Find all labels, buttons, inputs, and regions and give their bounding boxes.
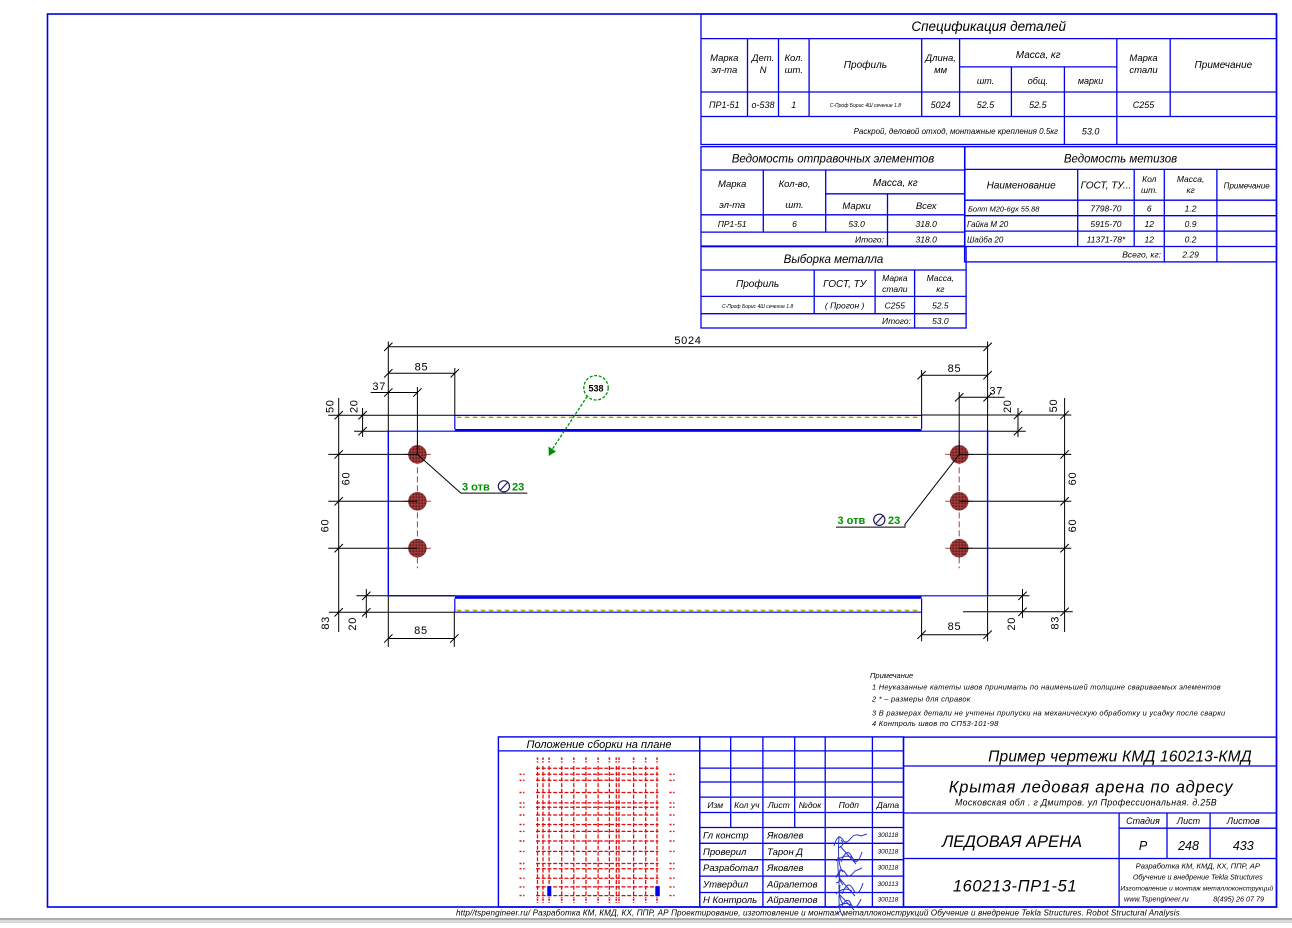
svg-text:Разработка КМ, КМД, КХ, ППР, А: Разработка КМ, КМД, КХ, ППР, АР xyxy=(1136,862,1261,871)
dim 85 bottom right xyxy=(922,634,988,636)
svg-text:85: 85 xyxy=(415,362,429,374)
svg-text:0.2: 0.2 xyxy=(1185,235,1197,245)
svg-text:53.0: 53.0 xyxy=(1082,127,1100,137)
extension lines right xyxy=(922,414,1072,416)
svg-text:Положение сборки на плане: Положение сборки на плане xyxy=(526,739,671,751)
svg-text:Профиль: Профиль xyxy=(844,59,887,71)
svg-text:Масса,: Масса, xyxy=(927,273,955,283)
svg-text:300113: 300113 xyxy=(878,881,899,888)
svg-text:Ведомость метизов: Ведомость метизов xyxy=(1064,154,1177,166)
svg-text:300118: 300118 xyxy=(878,832,899,839)
svg-text:Лист: Лист xyxy=(1176,816,1201,826)
svg-text:52.5: 52.5 xyxy=(977,100,996,110)
svg-text:Итого:: Итого: xyxy=(882,316,912,326)
svg-text:( Прогон ): ( Прогон ) xyxy=(825,301,865,311)
svg-text:318.0: 318.0 xyxy=(916,219,938,229)
bottom flange weld dashed line xyxy=(457,610,920,612)
svg-text:Всего, кг:: Всего, кг: xyxy=(1122,250,1161,260)
svg-text:5915-70: 5915-70 xyxy=(1090,219,1121,229)
svg-text:Листов: Листов xyxy=(1226,816,1260,826)
svg-text:83: 83 xyxy=(320,616,332,630)
svg-text:Длина,: Длина, xyxy=(924,53,955,64)
svg-text:Спецификация деталей: Спецификация деталей xyxy=(911,19,1066,34)
highlighted purlins (blue) xyxy=(547,886,551,896)
svg-text:20: 20 xyxy=(347,617,359,631)
svg-text:538: 538 xyxy=(588,384,603,394)
svg-text:Дет.: Дет. xyxy=(751,53,774,64)
svg-text:www.Tspengineer.ru: www.Tspengineer.ru xyxy=(1124,895,1189,904)
svg-text:60: 60 xyxy=(320,519,332,533)
svg-text:Примечание: Примечание xyxy=(1224,182,1271,191)
box Положение сборки на плане xyxy=(498,737,699,907)
svg-text:Итого:: Итого: xyxy=(855,235,885,245)
svg-text:С255: С255 xyxy=(885,301,906,311)
svg-text:0.9: 0.9 xyxy=(1185,219,1197,229)
svg-text:С255: С255 xyxy=(1133,100,1156,110)
svg-text:11371-78*: 11371-78* xyxy=(1087,235,1126,245)
leader 3 отв ø23 left xyxy=(417,454,527,493)
svg-text:Примечание: Примечание xyxy=(1195,60,1253,71)
svg-text:http//tspengineer.ru/ Разраб: http//tspengineer.ru/ Разработка КМ, КМД… xyxy=(456,909,1180,918)
svg-text:60: 60 xyxy=(1067,472,1079,486)
top flange xyxy=(455,414,922,416)
svg-text:Выборка металла: Выборка металла xyxy=(784,254,884,266)
bolt holes 3 отв ø23 (left group) xyxy=(408,445,427,464)
svg-text:Р: Р xyxy=(1139,839,1148,853)
svg-text:ПР1-51: ПР1-51 xyxy=(709,100,740,110)
svg-text:2 * – размеры для справок: 2 * – размеры для справок xyxy=(871,694,971,703)
signatures (blue scribbles) xyxy=(834,834,867,916)
svg-text:5024: 5024 xyxy=(931,100,951,110)
svg-text:3 отв: 3 отв xyxy=(462,482,490,494)
svg-text:шт.: шт. xyxy=(1141,185,1157,195)
svg-text:Айрапетов: Айрапетов xyxy=(766,880,818,891)
svg-text:60: 60 xyxy=(341,472,353,486)
svg-text:60: 60 xyxy=(1067,519,1079,533)
svg-text:300118: 300118 xyxy=(878,897,899,904)
svg-text:23: 23 xyxy=(888,515,900,527)
svg-text:С-Проф Борис 4Ш сечение 1.8: С-Проф Борис 4Ш сечение 1.8 xyxy=(830,103,902,109)
svg-text:433: 433 xyxy=(1233,839,1254,853)
dim chain right 50/60/60/83 xyxy=(1064,398,1066,632)
svg-text:85: 85 xyxy=(414,625,428,637)
dim 85 top left xyxy=(388,372,455,374)
svg-text:23: 23 xyxy=(512,482,524,494)
svg-text:Марка: Марка xyxy=(710,53,738,64)
svg-text:Яковлев: Яковлев xyxy=(766,863,804,874)
svg-text:Масса, кг: Масса, кг xyxy=(873,178,918,189)
svg-text:о-538: о-538 xyxy=(751,100,774,110)
red plan grid xyxy=(537,766,539,898)
svg-text:Утвердил: Утвердил xyxy=(702,880,749,891)
svg-text:Раскрой, деловой отход, монтаж: Раскрой, деловой отход, монтажные крепле… xyxy=(854,127,1058,136)
svg-text:20: 20 xyxy=(1002,399,1014,413)
svg-text:Проверил: Проверил xyxy=(703,847,747,858)
bottom flange xyxy=(455,611,922,613)
svg-text:С-Проф Борис 4Ш сечение 1.8: С-Проф Борис 4Ш сечение 1.8 xyxy=(722,304,794,310)
dim 37 top right xyxy=(959,396,1004,398)
top flange weld dashed line xyxy=(457,416,920,418)
dim 20 top right xyxy=(1017,408,1019,437)
svg-text:Н Контроль: Н Контроль xyxy=(703,895,757,906)
extension lines left xyxy=(328,414,455,416)
svg-text:12: 12 xyxy=(1145,235,1155,245)
svg-text:Болт М20-6gх 55.88: Болт М20-6gх 55.88 xyxy=(968,205,1040,214)
svg-text:4 Контроль швов по СП53-101-9: 4 Контроль швов по СП53-101-98 xyxy=(872,719,999,728)
svg-text:Ведомость отправочных элементо: Ведомость отправочных элементов xyxy=(732,154,935,166)
svg-text:кг: кг xyxy=(1186,185,1194,195)
svg-text:53.0: 53.0 xyxy=(848,219,865,229)
svg-text:Масса,: Масса, xyxy=(1177,174,1205,184)
svg-text:Профиль: Профиль xyxy=(736,278,779,290)
svg-text:50: 50 xyxy=(1048,399,1060,413)
svg-text:Всех: Всех xyxy=(916,201,938,212)
table: Спецификация деталей xyxy=(701,14,1277,145)
hole centerlines (red) xyxy=(403,453,431,455)
svg-text:Гайка М 20: Гайка М 20 xyxy=(967,220,1009,229)
svg-text:318.0: 318.0 xyxy=(916,235,938,245)
svg-text:Кол.: Кол. xyxy=(784,53,803,64)
svg-text:шт.: шт. xyxy=(785,200,803,211)
svg-text:85: 85 xyxy=(948,363,962,375)
dim 20 bottom right xyxy=(1022,589,1024,618)
svg-text:ГОСТ, ТУ: ГОСТ, ТУ xyxy=(823,279,868,290)
svg-text:Примечание: Примечание xyxy=(870,671,913,680)
title block xyxy=(904,737,1277,907)
svg-text:Крытая ледовая арена по адресу: Крытая ледовая арена по адресу xyxy=(949,779,1235,797)
svg-text:3 отв: 3 отв xyxy=(838,515,866,527)
svg-text:Дата: Дата xyxy=(876,800,900,810)
svg-text:Яковлев: Яковлев xyxy=(766,831,804,842)
svg-text:6: 6 xyxy=(1147,204,1152,214)
svg-text:общ.: общ. xyxy=(1028,76,1048,86)
svg-text:Гл констр: Гл констр xyxy=(703,831,749,842)
balloon 538 xyxy=(584,376,608,400)
svg-text:2.29: 2.29 xyxy=(1181,250,1199,260)
svg-text:52.5: 52.5 xyxy=(1029,100,1048,110)
svg-text:стали: стали xyxy=(1129,65,1158,76)
svg-text:Шайба 20: Шайба 20 xyxy=(967,236,1004,245)
table: Ведомость отправочных элементов xyxy=(701,147,965,246)
svg-text:Обучение и внедрение Tekla St: Обучение и внедрение Tekla Structures xyxy=(1133,873,1263,882)
dim 37 top left xyxy=(371,392,418,394)
svg-text:Масса, кг: Масса, кг xyxy=(1016,50,1061,61)
svg-text:Стадия: Стадия xyxy=(1126,816,1160,826)
svg-text:1 Неуказанные катеты швов при: 1 Неуказанные катеты швов принимать по н… xyxy=(872,683,1221,692)
table: Ведомость метизов xyxy=(965,147,1277,262)
svg-text:3 В размерах детали не учтены: 3 В размерах детали не учтены припуски н… xyxy=(872,708,1226,717)
svg-text:Марка: Марка xyxy=(718,179,746,190)
svg-text:Марки: Марки xyxy=(842,201,871,212)
dim 85 top right xyxy=(922,374,988,376)
svg-text:52.5: 52.5 xyxy=(932,301,949,311)
svg-text:Тарон Д: Тарон Д xyxy=(767,847,803,858)
svg-text:кг: кг xyxy=(936,284,944,294)
svg-text:7798-70: 7798-70 xyxy=(1090,204,1121,214)
svg-text:Кол: Кол xyxy=(1142,174,1157,184)
svg-text:шт.: шт. xyxy=(977,76,994,86)
svg-text:300118: 300118 xyxy=(878,865,899,872)
svg-text:Кол-во,: Кол-во, xyxy=(779,179,811,190)
dim 20 bottom left xyxy=(365,589,367,618)
svg-text:20: 20 xyxy=(349,399,361,413)
svg-text:53.0: 53.0 xyxy=(932,316,949,326)
svg-text:Марка: Марка xyxy=(1129,53,1157,64)
svg-text:5024: 5024 xyxy=(674,335,701,347)
svg-text:50: 50 xyxy=(325,399,337,413)
svg-text:300118: 300118 xyxy=(878,849,899,856)
svg-text:Московская обл . г Дмитров. у: Московская обл . г Дмитров. ул Профессио… xyxy=(955,798,1217,808)
svg-text:Лист: Лист xyxy=(767,800,790,810)
dim 20 top left xyxy=(362,408,364,437)
leader 3 отв ø23 right xyxy=(836,454,959,527)
svg-text:Наименование: Наименование xyxy=(987,181,1056,192)
svg-text:марки: марки xyxy=(1078,76,1103,86)
svg-text:эл-та: эл-та xyxy=(711,65,737,76)
svg-text:№док: №док xyxy=(799,800,823,810)
svg-text:6: 6 xyxy=(792,219,797,229)
svg-text:стали: стали xyxy=(882,284,908,294)
svg-text:248: 248 xyxy=(1177,839,1199,853)
svg-text:эл-та: эл-та xyxy=(719,200,745,211)
svg-text:8(495) 26 07 79: 8(495) 26 07 79 xyxy=(1213,895,1264,904)
footer divider xyxy=(0,918,1292,920)
svg-text:шт.: шт. xyxy=(785,65,803,76)
svg-text:37: 37 xyxy=(989,386,1003,398)
svg-text:ПР1-51: ПР1-51 xyxy=(718,219,747,229)
svg-text:1.2: 1.2 xyxy=(1185,204,1197,214)
dim 5024 xyxy=(388,346,987,348)
bolt holes 3 отв ø23 (right group) xyxy=(950,445,969,464)
dim 85 bottom left xyxy=(388,638,454,640)
svg-text:20: 20 xyxy=(1006,617,1018,631)
svg-text:Айрапетов: Айрапетов xyxy=(766,895,818,906)
svg-text:85: 85 xyxy=(948,621,962,633)
svg-text:Изм: Изм xyxy=(707,800,723,810)
signature table xyxy=(700,737,904,907)
svg-text:Кол уч: Кол уч xyxy=(734,800,760,810)
svg-text:Подп: Подп xyxy=(839,800,860,810)
table: Выборка металла xyxy=(701,247,966,328)
svg-text:37: 37 xyxy=(372,381,386,393)
svg-text:ГОСТ, ТУ...: ГОСТ, ТУ... xyxy=(1081,181,1132,192)
svg-text:Пример чертежи КМД 160213-КМ: Пример чертежи КМД 160213-КМД xyxy=(988,749,1252,766)
svg-text:мм: мм xyxy=(934,65,948,76)
svg-text:N: N xyxy=(760,65,767,76)
plate web outline xyxy=(387,431,389,596)
svg-text:Разработал: Разработал xyxy=(703,863,759,874)
svg-text:160213-ПР1-51: 160213-ПР1-51 xyxy=(953,878,1077,896)
svg-text:Марка: Марка xyxy=(882,273,908,283)
svg-text:ЛЕДОВАЯ АРЕНА: ЛЕДОВАЯ АРЕНА xyxy=(941,833,1082,851)
svg-text:Изготовление и монтаж металлок: Изготовление и монтаж металлоконструкций xyxy=(1120,885,1273,893)
svg-text:1: 1 xyxy=(791,100,796,110)
svg-text:83: 83 xyxy=(1050,616,1062,630)
svg-text:12: 12 xyxy=(1145,219,1155,229)
dim chain left 50/60/60/83 xyxy=(338,398,340,632)
